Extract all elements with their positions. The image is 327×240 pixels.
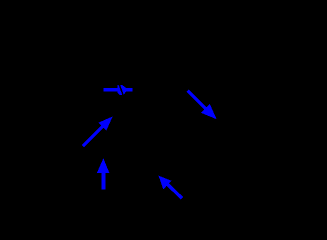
arrow A: horizontal blue arrow pointing right (mid-line arrowhead) <box>103 85 132 95</box>
arrow D: vertical blue arrow pointing up <box>97 158 109 189</box>
arrow C: diagonal blue arrow pointing up-right <box>82 116 113 147</box>
arrow E: diagonal blue arrow pointing up-left <box>159 176 184 200</box>
black line crossing arrow A head <box>119 84 123 95</box>
arrow B: diagonal blue arrow pointing down-right <box>186 89 216 119</box>
